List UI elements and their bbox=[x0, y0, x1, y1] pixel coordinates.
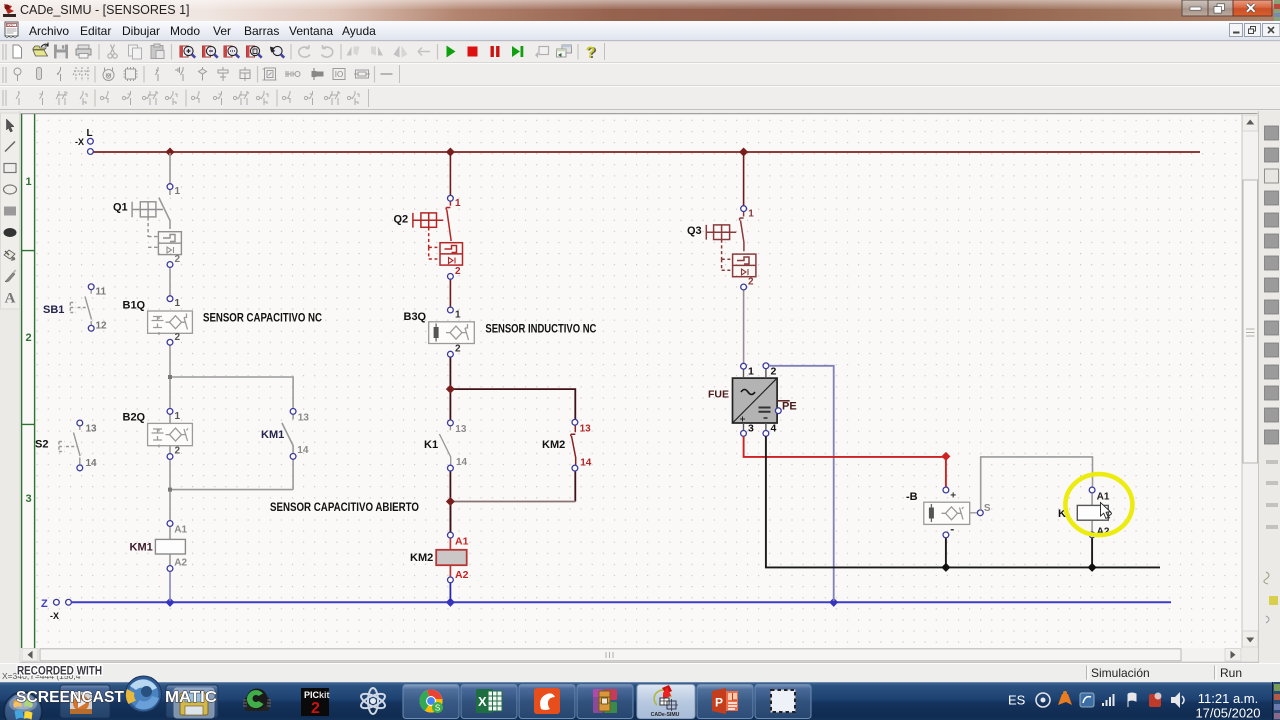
svg-text:IO: IO bbox=[335, 70, 343, 79]
svg-text:A1: A1 bbox=[1097, 492, 1110, 503]
svg-text:KM2: KM2 bbox=[542, 439, 565, 451]
svg-text:S2: S2 bbox=[35, 439, 48, 451]
svg-text:ES: ES bbox=[1008, 693, 1026, 708]
svg-text:1: 1 bbox=[455, 310, 461, 321]
svg-text:+: + bbox=[950, 491, 956, 502]
svg-text:11: 11 bbox=[96, 287, 107, 298]
svg-text:SENSOR CAPACITIVO NC: SENSOR CAPACITIVO NC bbox=[203, 310, 322, 324]
svg-text:14: 14 bbox=[297, 445, 309, 456]
svg-text:KM1: KM1 bbox=[261, 429, 284, 441]
svg-text:SENSOR INDUCTIVO NC: SENSOR INDUCTIVO NC bbox=[485, 322, 596, 336]
svg-text:13: 13 bbox=[580, 424, 592, 435]
svg-text:2: 2 bbox=[748, 277, 754, 288]
svg-text:4: 4 bbox=[771, 423, 777, 435]
svg-text:1: 1 bbox=[175, 186, 181, 197]
svg-text:MATIC: MATIC bbox=[165, 689, 217, 706]
svg-text:A2: A2 bbox=[455, 569, 469, 581]
svg-text:17/05/2020: 17/05/2020 bbox=[1195, 706, 1260, 720]
svg-text:-B: -B bbox=[906, 491, 918, 503]
svg-text:1: 1 bbox=[455, 198, 461, 209]
svg-text:3: 3 bbox=[748, 423, 754, 435]
svg-text:Q3: Q3 bbox=[687, 225, 702, 237]
svg-text:11:21 a.m.: 11:21 a.m. bbox=[1198, 691, 1258, 706]
svg-text:L: L bbox=[87, 128, 93, 139]
svg-text:13: 13 bbox=[86, 424, 98, 435]
svg-text:14: 14 bbox=[86, 458, 98, 469]
svg-text:PE: PE bbox=[782, 401, 797, 413]
svg-text:2: 2 bbox=[175, 332, 181, 343]
svg-text:X: X bbox=[478, 694, 487, 709]
svg-text:DOC: DOC bbox=[7, 23, 15, 27]
svg-text:1: 1 bbox=[748, 209, 754, 220]
svg-text:A1: A1 bbox=[455, 536, 469, 548]
svg-text:A: A bbox=[5, 291, 16, 307]
svg-text:2: 2 bbox=[175, 446, 181, 457]
svg-text:CADe-SIMU: CADe-SIMU bbox=[651, 712, 680, 718]
svg-text:A1: A1 bbox=[174, 525, 187, 536]
svg-text:KM2: KM2 bbox=[410, 552, 433, 564]
svg-text:KM1: KM1 bbox=[130, 542, 153, 554]
svg-text:Z: Z bbox=[41, 598, 48, 610]
svg-text:B1Q: B1Q bbox=[123, 300, 146, 312]
svg-text:2: 2 bbox=[771, 366, 777, 378]
svg-text:FUE: FUE bbox=[708, 389, 729, 401]
svg-text:SCREENCAST: SCREENCAST bbox=[16, 689, 125, 706]
svg-text:14: 14 bbox=[456, 457, 468, 468]
svg-text:S: S bbox=[984, 503, 991, 514]
svg-text:2: 2 bbox=[455, 266, 461, 277]
svg-text:SENSOR CAPACITIVO ABIERTO: SENSOR CAPACITIVO ABIERTO bbox=[270, 500, 419, 514]
svg-text:Q2: Q2 bbox=[394, 214, 409, 226]
svg-text:SB1: SB1 bbox=[43, 304, 64, 316]
svg-text:A2: A2 bbox=[174, 557, 187, 568]
svg-text:2: 2 bbox=[26, 332, 32, 344]
svg-text:1: 1 bbox=[175, 411, 181, 422]
svg-text:2: 2 bbox=[175, 254, 181, 265]
svg-text:13: 13 bbox=[455, 424, 467, 435]
svg-text:-: - bbox=[950, 522, 954, 536]
svg-text:?: ? bbox=[586, 45, 596, 62]
svg-text:3: 3 bbox=[26, 493, 32, 505]
svg-text:12: 12 bbox=[96, 321, 108, 332]
svg-text:14: 14 bbox=[580, 458, 592, 469]
svg-text:-X: -X bbox=[50, 611, 59, 621]
svg-text:1: 1 bbox=[748, 366, 754, 378]
svg-text:-X: -X bbox=[75, 137, 84, 147]
svg-text:13: 13 bbox=[298, 413, 310, 424]
svg-text:B2Q: B2Q bbox=[123, 412, 146, 424]
svg-text:1: 1 bbox=[175, 298, 181, 309]
svg-text:K1: K1 bbox=[424, 439, 438, 451]
svg-text:B3Q: B3Q bbox=[404, 311, 427, 323]
svg-text:1: 1 bbox=[26, 176, 32, 188]
svg-text:P: P bbox=[715, 696, 723, 710]
svg-text:2: 2 bbox=[455, 344, 461, 355]
svg-text:Q1: Q1 bbox=[113, 202, 128, 214]
